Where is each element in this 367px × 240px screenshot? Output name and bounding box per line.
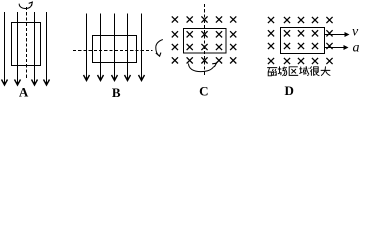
- svg-text:D: D: [285, 83, 294, 98]
- svg-text:A: A: [19, 84, 29, 99]
- svg-text:v: v: [352, 25, 359, 40]
- svg-text:B: B: [112, 85, 121, 100]
- svg-text:a: a: [353, 41, 360, 56]
- svg-text:C: C: [199, 84, 208, 99]
